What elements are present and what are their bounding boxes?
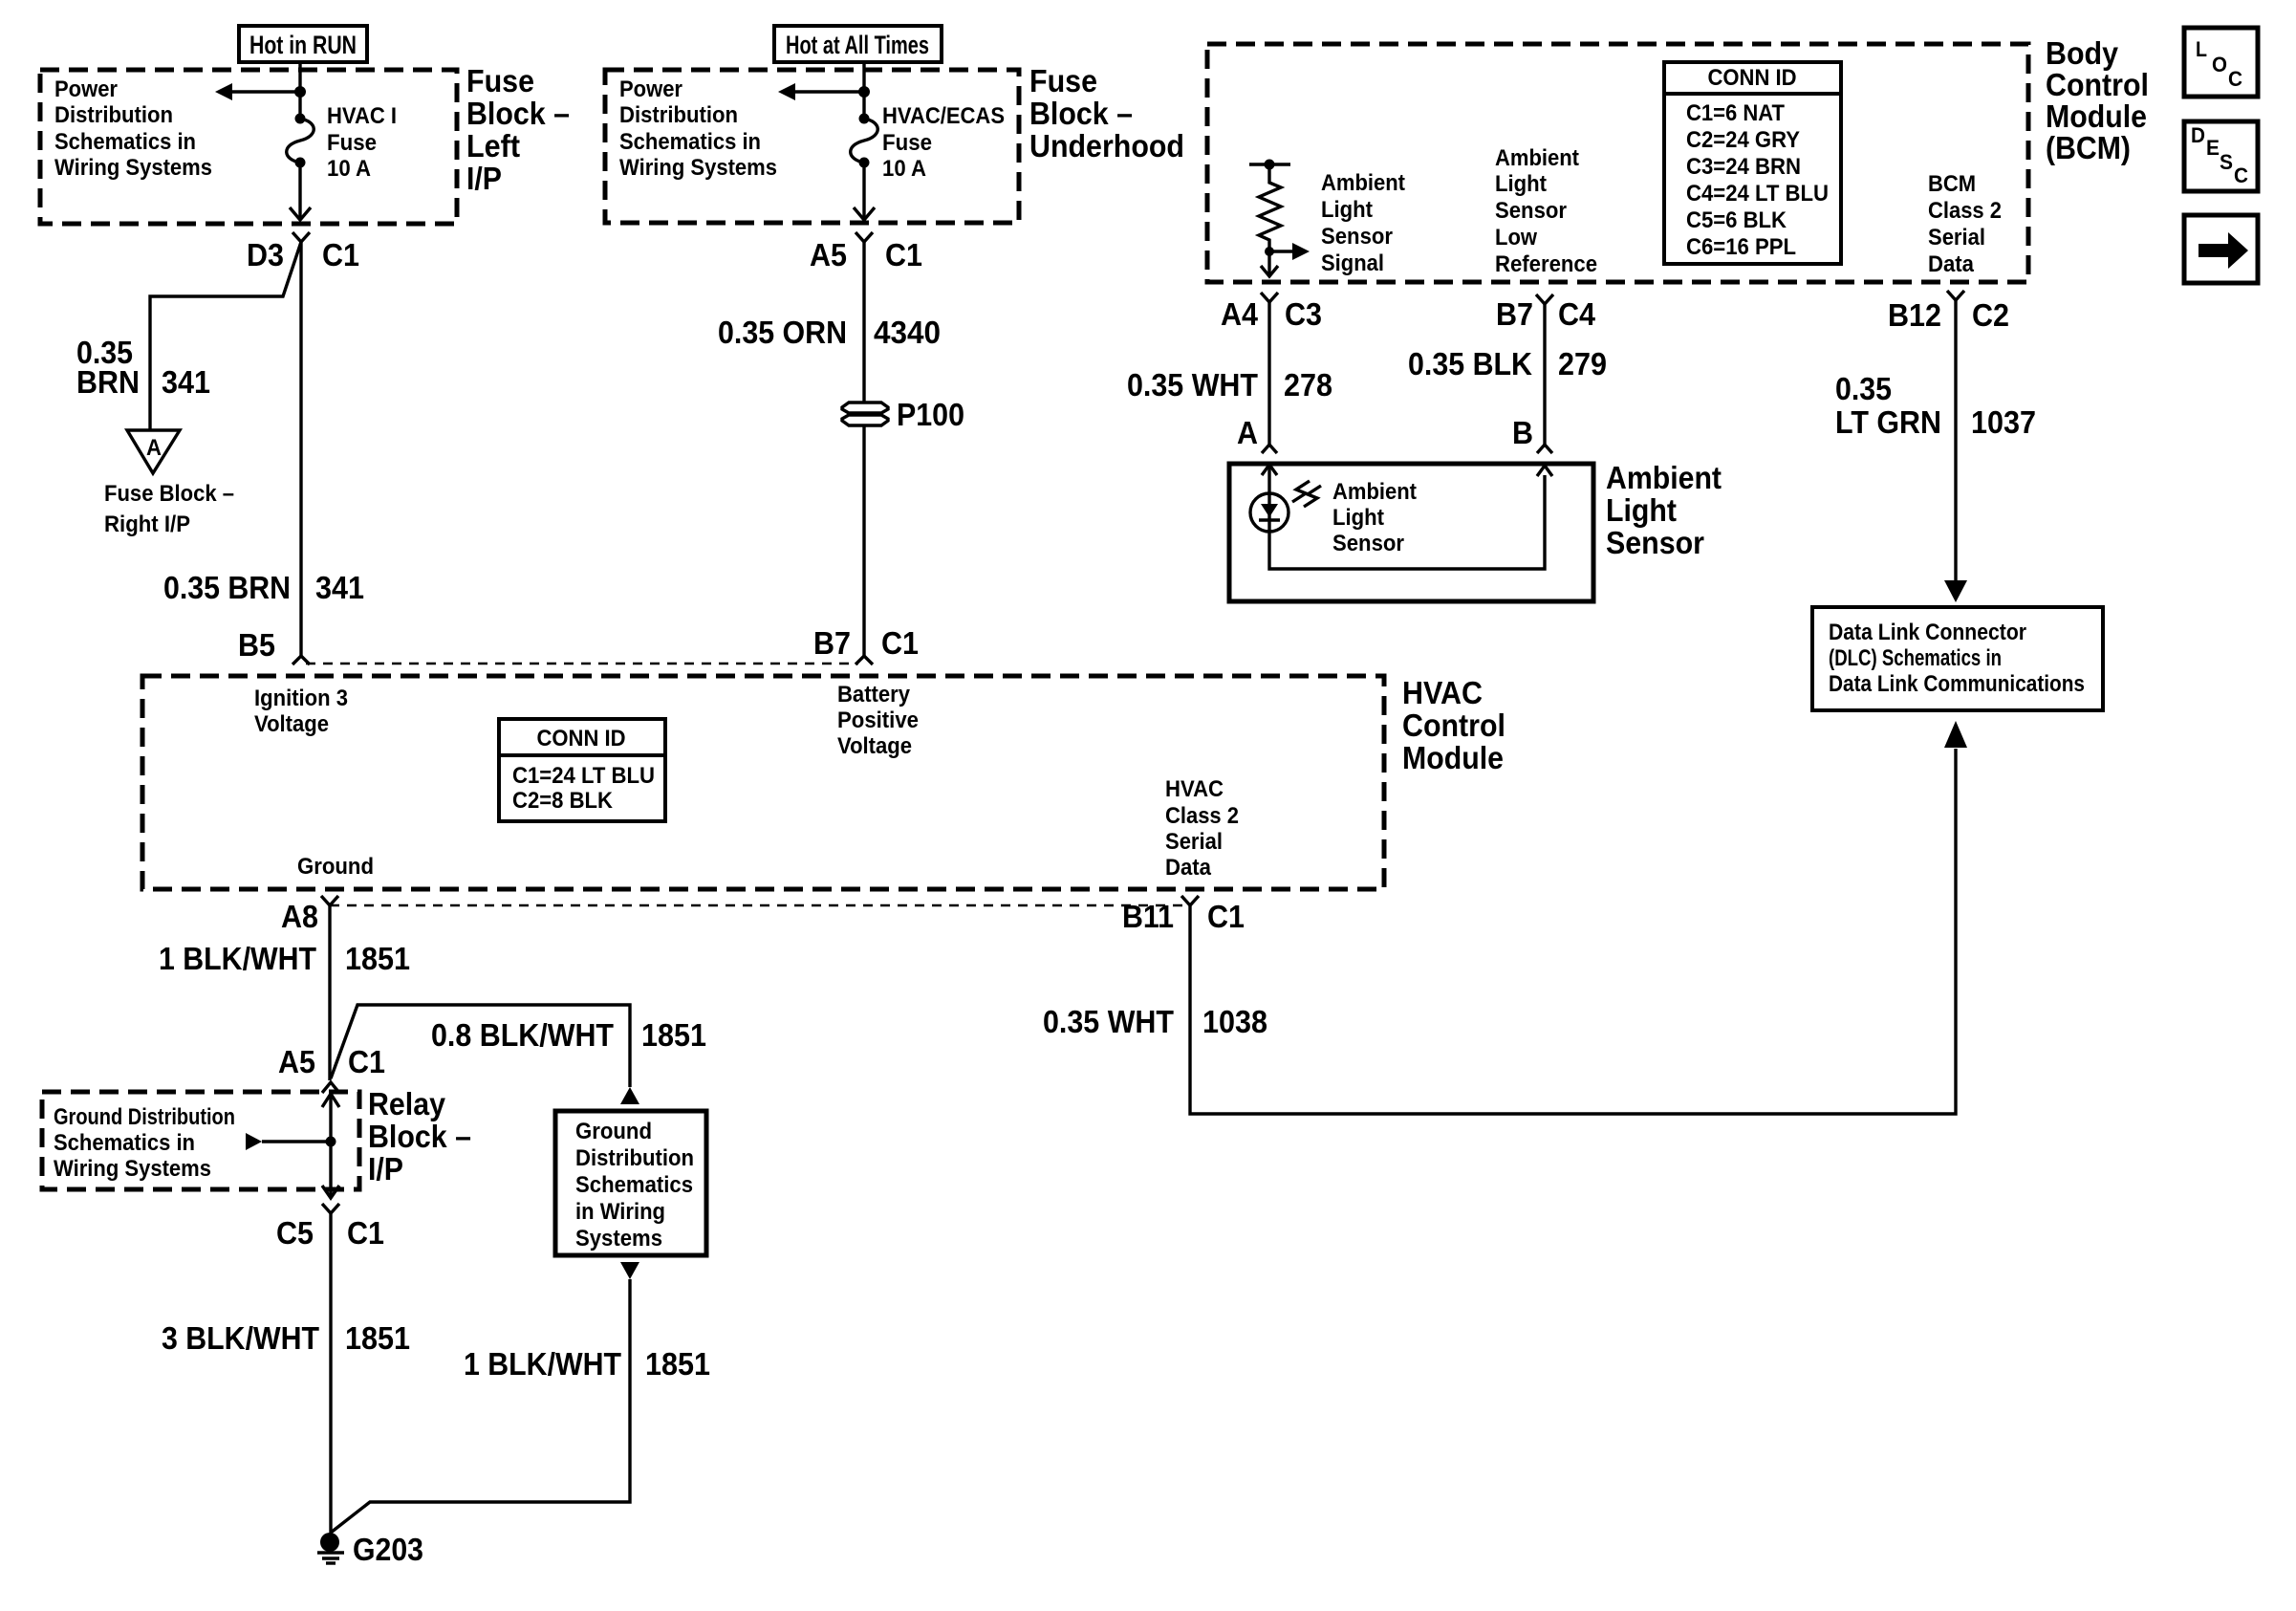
svg-text:341: 341	[315, 570, 364, 605]
connector A5 / C1 (Y pin)	[856, 232, 873, 242]
svg-text:1851: 1851	[641, 1017, 706, 1053]
block title: HVAC Control Module	[1402, 675, 1505, 775]
svg-text:Module: Module	[1402, 740, 1504, 775]
svg-text:Class 2: Class 2	[1928, 198, 2002, 224]
svg-text:Sensor: Sensor	[1321, 224, 1393, 250]
wire B12 to DLC	[1954, 300, 1957, 581]
svg-text:A4: A4	[1221, 296, 1259, 332]
note: Power Distribution Schematics in Wiring Systems (2)	[619, 76, 777, 181]
svg-text:CONN ID: CONN ID	[537, 726, 626, 751]
svg-text:A5: A5	[810, 237, 847, 272]
svg-text:B11: B11	[1122, 899, 1174, 934]
off-page triangle A	[127, 430, 180, 473]
arrowhead down into DLC box	[1944, 580, 1967, 602]
svg-text:Fuse: Fuse	[882, 130, 932, 156]
svg-text:C: C	[2228, 67, 2242, 91]
wire to left arrow	[793, 90, 864, 93]
wire A5 to P100	[862, 242, 865, 403]
svg-text:Right I/P: Right I/P	[104, 512, 190, 537]
wire fuse to box edge with arrowhead	[298, 163, 301, 218]
svg-text:341: 341	[162, 364, 210, 400]
fuse block underhood dashed box	[605, 70, 1019, 223]
wire B11 down and right to DLC riser	[1190, 749, 1956, 1114]
connector A4 / C3 (Y pin)	[1261, 293, 1278, 302]
note: Ambient Light Sensor Signal	[1321, 170, 1405, 276]
wire branch diagonal from D3 to fuse block right I/P	[150, 242, 301, 430]
thin dashed connector line between A8 and B11	[330, 904, 1185, 907]
svg-text:O: O	[2212, 53, 2227, 76]
svg-text:Control: Control	[2046, 67, 2149, 102]
connector B5 (chevron into HVAC module)	[292, 656, 310, 664]
HVAC CONN ID table	[499, 719, 665, 821]
wire from Hot in RUN to fuse	[298, 61, 301, 119]
svg-text:1851: 1851	[645, 1346, 710, 1382]
svg-text:1038: 1038	[1202, 1004, 1267, 1039]
connector B11 (Y pin)	[1181, 896, 1199, 905]
svg-text:B7: B7	[813, 625, 851, 661]
svg-text:Schematics in: Schematics in	[619, 129, 761, 155]
ground distribution note box	[555, 1111, 706, 1255]
svg-text:C1: C1	[322, 237, 359, 272]
svg-text:Signal: Signal	[1321, 250, 1384, 276]
svg-text:C3: C3	[1285, 296, 1322, 332]
svg-text:Distribution: Distribution	[575, 1145, 694, 1171]
svg-text:C2: C2	[1972, 297, 2009, 333]
node junction dot	[858, 86, 870, 98]
note: Ambient Light Sensor (inside box)	[1332, 479, 1417, 556]
wire branch diagonal to 0.8 BLK/WHT run	[331, 1005, 630, 1087]
svg-text:Fuse: Fuse	[1029, 63, 1097, 98]
svg-text:Low: Low	[1495, 225, 1537, 250]
wire C5 down to G203	[329, 1213, 332, 1535]
svg-text:(BCM): (BCM)	[2046, 130, 2131, 165]
svg-text:Ground: Ground	[297, 854, 374, 880]
svg-text:I/P: I/P	[368, 1151, 403, 1186]
arrowhead left (to power distribution)	[215, 83, 232, 100]
svg-text:Hot in RUN: Hot in RUN	[249, 31, 357, 59]
svg-text:C: C	[2234, 163, 2248, 187]
connector A8 (Y pin)	[321, 896, 338, 905]
connector D3 / C1 (Y pin)	[292, 232, 310, 242]
svg-text:0.8 BLK/WHT: 0.8 BLK/WHT	[431, 1017, 614, 1053]
svg-text:Sensor: Sensor	[1332, 531, 1404, 556]
svg-text:Data Link Communications: Data Link Communications	[1829, 671, 2085, 697]
svg-text:C2=8 BLK: C2=8 BLK	[512, 788, 614, 814]
svg-text:Fuse: Fuse	[327, 130, 377, 156]
node with signal arrow	[1265, 243, 1310, 260]
svg-text:1851: 1851	[345, 1320, 410, 1356]
connector A5 / C1 at relay block (chevron)	[322, 1082, 339, 1093]
svg-text:in Wiring: in Wiring	[575, 1199, 665, 1225]
svg-text:Systems: Systems	[575, 1226, 662, 1252]
svg-text:0.35 BRN: 0.35 BRN	[163, 570, 291, 605]
svg-text:Voltage: Voltage	[254, 711, 329, 737]
wire D3 to B5 (ignition 3 voltage feed)	[299, 242, 302, 656]
svg-text:S: S	[2220, 150, 2233, 174]
wire fuse to box edge with arrowhead	[862, 163, 865, 218]
svg-text:Ground: Ground	[575, 1119, 652, 1144]
note: Ambient Light Sensor Low Reference	[1495, 145, 1597, 277]
svg-text:A8: A8	[281, 899, 318, 934]
LOC icon box	[2184, 28, 2258, 97]
svg-text:Battery: Battery	[837, 682, 911, 708]
svg-text:Relay: Relay	[368, 1086, 446, 1121]
node junction dot	[294, 86, 306, 98]
svg-text:L: L	[2196, 37, 2207, 61]
svg-text:B5: B5	[238, 627, 275, 663]
block title: Body Control Module (BCM)	[2046, 35, 2149, 165]
svg-text:Distribution: Distribution	[619, 102, 738, 128]
svg-text:C1=6 NAT: C1=6 NAT	[1686, 100, 1785, 126]
internal wire loop to pin B with up arrow	[1269, 466, 1552, 569]
net label box "Hot at All Times"	[774, 26, 942, 62]
svg-text:C4: C4	[1558, 296, 1596, 332]
svg-text:Schematics: Schematics	[575, 1172, 693, 1198]
resistor (ambient light sensor pull-up)	[1249, 160, 1290, 252]
svg-text:A: A	[146, 435, 162, 461]
svg-text:0.35 WHT: 0.35 WHT	[1127, 367, 1258, 403]
svg-text:Wiring Systems: Wiring Systems	[54, 155, 212, 181]
pass-through grommet P100	[842, 403, 888, 425]
note: Ground Distribution Schematics in Wiring Systems	[54, 1104, 235, 1182]
open arrowhead down at box edge	[290, 207, 311, 220]
HVAC control module dashed box	[142, 676, 1384, 889]
svg-text:Data: Data	[1928, 251, 1975, 277]
svg-text:C5: C5	[276, 1215, 314, 1251]
svg-text:Positive: Positive	[837, 708, 919, 733]
wire A4 to sensor A	[1267, 302, 1270, 445]
svg-text:C1: C1	[1207, 899, 1245, 934]
block title: Fuse Block - Left I/P	[466, 63, 570, 196]
note: Battery Positive Voltage	[837, 682, 919, 759]
wire B7 to sensor B	[1543, 304, 1546, 445]
svg-text:B: B	[1512, 415, 1533, 450]
svg-text:C2=24 GRY: C2=24 GRY	[1686, 127, 1800, 153]
svg-text:C3=24 BRN: C3=24 BRN	[1686, 154, 1801, 180]
fuse label HVAC/ECAS Fuse 10 A	[882, 103, 1005, 182]
svg-text:C1=24 LT BLU: C1=24 LT BLU	[512, 763, 655, 789]
svg-text:10 A: 10 A	[327, 156, 371, 182]
svg-text:Hot at All Times: Hot at All Times	[786, 31, 929, 59]
svg-text:1037: 1037	[1971, 404, 2036, 440]
note: BCM Class 2 Serial Data	[1928, 171, 2002, 277]
svg-text:C1: C1	[885, 237, 922, 272]
fuse HVAC/ECAS 10A	[851, 114, 878, 168]
svg-text:E: E	[2206, 136, 2220, 160]
wire label 0.35 LT GRN	[1835, 371, 1941, 440]
svg-text:C6=16 PPL: C6=16 PPL	[1686, 234, 1796, 260]
svg-text:279: 279	[1558, 346, 1607, 381]
svg-text:Sensor: Sensor	[1606, 525, 1704, 560]
svg-text:Block –: Block –	[466, 96, 570, 131]
svg-text:B7: B7	[1496, 296, 1533, 332]
svg-text:C1: C1	[347, 1215, 384, 1251]
svg-text:10 A: 10 A	[882, 156, 926, 182]
svg-text:Schematics in: Schematics in	[54, 1130, 195, 1156]
connector B7 (chevron into HVAC module)	[856, 656, 873, 664]
svg-text:0.35: 0.35	[1835, 371, 1892, 406]
svg-text:C1: C1	[348, 1044, 385, 1079]
svg-text:D: D	[2191, 123, 2205, 147]
svg-text:Ignition 3: Ignition 3	[254, 686, 348, 711]
svg-text:Left: Left	[466, 128, 520, 163]
svg-text:(DLC) Schematics in: (DLC) Schematics in	[1829, 645, 2002, 671]
svg-text:HVAC: HVAC	[1402, 675, 1483, 710]
svg-text:HVAC/ECAS: HVAC/ECAS	[882, 103, 1005, 129]
connector B (chevron into sensor)	[1537, 445, 1552, 453]
fuse HVAC I 10A	[287, 114, 314, 168]
photodiode LED symbol	[1250, 493, 1289, 532]
fuse label HVAC I Fuse 10 A	[327, 103, 397, 182]
arrowhead up at ground distribution box	[620, 1087, 639, 1104]
svg-text:I/P: I/P	[466, 161, 502, 196]
svg-text:CONN ID: CONN ID	[1708, 65, 1797, 91]
svg-text:Ground Distribution: Ground Distribution	[54, 1104, 235, 1130]
svg-text:Block –: Block –	[1029, 96, 1133, 131]
svg-text:1851: 1851	[345, 941, 410, 976]
relay block dashed box	[42, 1092, 359, 1189]
note: HVAC Class 2 Serial Data	[1165, 776, 1239, 881]
block title: Ambient Light Sensor	[1606, 460, 1722, 560]
svg-text:Power: Power	[619, 76, 682, 102]
thin dashed connector line C1 between B5 and B7	[306, 663, 858, 665]
svg-text:Schematics in: Schematics in	[54, 129, 196, 155]
svg-text:Serial: Serial	[1928, 225, 1985, 250]
svg-text:Distribution: Distribution	[54, 102, 173, 128]
block title: Fuse Block - Underhood	[1029, 63, 1184, 163]
svg-text:Light: Light	[1321, 197, 1373, 223]
svg-text:Ambient: Ambient	[1332, 479, 1417, 505]
arrowhead up toward DLC box	[1944, 721, 1967, 748]
svg-text:LT GRN: LT GRN	[1835, 404, 1941, 440]
note: Power Distribution Schematics in Wiring Systems	[54, 76, 212, 181]
ambient light sensor box	[1229, 464, 1593, 601]
svg-text:BCM: BCM	[1928, 171, 1976, 197]
svg-text:Body: Body	[2046, 35, 2119, 71]
wire Hot at All Times to fuse	[862, 60, 865, 119]
svg-text:Control: Control	[1402, 708, 1505, 743]
open arrowhead down at box edge	[854, 207, 875, 220]
note: Fuse Block - Right I/P	[104, 481, 234, 537]
svg-text:A: A	[1237, 415, 1258, 450]
svg-text:Class 2: Class 2	[1165, 803, 1239, 829]
svg-text:Fuse: Fuse	[466, 63, 534, 98]
svg-text:Voltage: Voltage	[837, 733, 912, 759]
wire A8 down to relay block A5	[328, 905, 331, 1080]
wire ground distribution to G203	[331, 1279, 630, 1533]
connector B12 / C2 (Y pin)	[1947, 291, 1964, 300]
svg-text:Sensor: Sensor	[1495, 198, 1567, 224]
svg-text:Data Link Connector: Data Link Connector	[1829, 620, 2026, 645]
note: Ignition 3 Voltage	[254, 686, 348, 737]
svg-text:Underhood: Underhood	[1029, 128, 1184, 163]
BCM CONN ID table	[1664, 62, 1841, 264]
svg-text:3 BLK/WHT: 3 BLK/WHT	[162, 1320, 319, 1356]
svg-text:A5: A5	[278, 1044, 315, 1079]
svg-text:0.35 WHT: 0.35 WHT	[1043, 1004, 1174, 1039]
svg-text:C1: C1	[881, 625, 919, 661]
connector C5 / C1 (Y pin)	[322, 1204, 339, 1213]
wire P100 to B7	[862, 425, 865, 656]
svg-text:Data: Data	[1165, 855, 1212, 881]
svg-text:0.35 ORN: 0.35 ORN	[718, 315, 847, 350]
svg-text:Ambient: Ambient	[1606, 460, 1722, 495]
block title: Relay Block - I/P	[368, 1086, 471, 1186]
svg-text:C4=24 LT BLU: C4=24 LT BLU	[1686, 181, 1829, 207]
open arrowhead down to box edge	[1261, 251, 1278, 276]
arrowhead left	[778, 83, 795, 100]
arrowhead down leaving ground distribution box	[620, 1262, 639, 1279]
data link connector note box	[1812, 607, 2103, 710]
svg-text:0.35 BLK: 0.35 BLK	[1408, 346, 1532, 381]
svg-text:D3: D3	[247, 237, 284, 272]
svg-text:Wiring Systems: Wiring Systems	[54, 1156, 211, 1182]
lateral wire with right arrowhead	[246, 1133, 331, 1150]
connector B7 / C4 (Y pin)	[1536, 294, 1553, 304]
svg-text:278: 278	[1284, 367, 1332, 403]
svg-text:Ambient: Ambient	[1321, 170, 1405, 196]
svg-text:Light: Light	[1495, 171, 1547, 197]
svg-text:P100: P100	[897, 397, 964, 432]
svg-text:Serial: Serial	[1165, 829, 1223, 855]
svg-text:1 BLK/WHT: 1 BLK/WHT	[159, 941, 316, 976]
svg-text:1 BLK/WHT: 1 BLK/WHT	[464, 1346, 621, 1382]
svg-text:Reference: Reference	[1495, 251, 1597, 277]
photon arrows	[1292, 481, 1321, 507]
fuse block - left I/P dashed box	[40, 70, 457, 224]
junction dot in relay block	[326, 1137, 336, 1147]
relay internal wire with arrows	[322, 1094, 339, 1198]
right arrow icon box	[2184, 215, 2258, 283]
svg-text:HVAC: HVAC	[1165, 776, 1224, 802]
svg-text:Wiring Systems: Wiring Systems	[619, 155, 777, 181]
svg-text:Block –: Block –	[368, 1119, 471, 1154]
svg-text:Power: Power	[54, 76, 118, 102]
svg-text:G203: G203	[353, 1532, 423, 1567]
DESC icon box	[2184, 121, 2258, 191]
internal wire with up arrow at pin A	[1262, 465, 1277, 493]
svg-text:4340: 4340	[874, 315, 941, 350]
svg-text:Ambient: Ambient	[1495, 145, 1579, 171]
connector A (chevron into sensor)	[1262, 445, 1277, 453]
svg-text:BRN: BRN	[76, 364, 140, 400]
svg-text:Module: Module	[2046, 98, 2147, 134]
wire label 0.35 BRN	[76, 335, 140, 400]
svg-text:Light: Light	[1332, 505, 1384, 531]
svg-text:HVAC I: HVAC I	[327, 103, 397, 129]
svg-text:C5=6 BLK: C5=6 BLK	[1686, 207, 1787, 233]
net label box "Hot in RUN"	[239, 26, 367, 62]
svg-text:Light: Light	[1606, 492, 1677, 528]
body control module dashed box	[1207, 44, 2028, 282]
wire to left arrow	[229, 90, 300, 93]
svg-text:Fuse Block –: Fuse Block –	[104, 481, 234, 507]
svg-text:B12: B12	[1888, 297, 1941, 333]
